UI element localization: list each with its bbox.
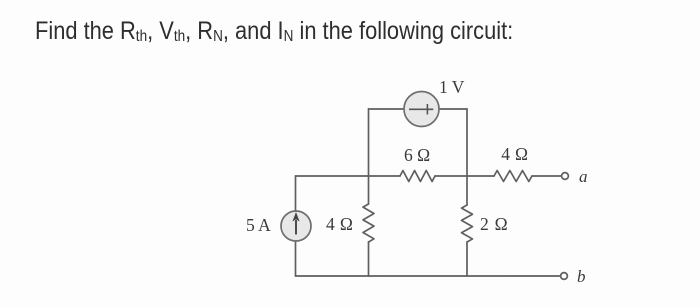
wire top rail left segment xyxy=(296,175,401,177)
svg-text:6 Ω: 6 Ω xyxy=(404,145,430,165)
terminal a circle xyxy=(562,173,569,180)
svg-text:4 Ω: 4 Ω xyxy=(501,144,528,164)
terminal b circle xyxy=(561,273,568,280)
svg-text:2 Ω: 2 Ω xyxy=(480,214,508,234)
svg-text:a: a xyxy=(579,167,588,186)
wire voltage loop right xyxy=(439,108,467,110)
svg-text:5 A: 5 A xyxy=(246,215,271,235)
wire to terminal a xyxy=(532,175,562,177)
resistor 6ohm zigzag xyxy=(400,171,435,182)
wire right branch upper xyxy=(466,109,468,205)
svg-text:1 V: 1 V xyxy=(439,77,465,97)
wire top rail middle segment xyxy=(435,175,494,177)
svg-text:b: b xyxy=(577,267,586,286)
wire voltage loop left xyxy=(369,108,405,110)
wire bottom rail xyxy=(296,275,562,277)
current source I1 circle with up arrow xyxy=(281,211,311,241)
voltage source V1 circle xyxy=(404,92,439,127)
wire left branch vertical xyxy=(295,176,297,276)
resistor 4ohm vertical zigzag xyxy=(363,204,374,242)
wire right branch lower xyxy=(466,242,468,276)
resistor 4ohm horizontal zigzag xyxy=(494,171,532,182)
wire middle branch lower xyxy=(368,242,370,276)
title xyxy=(35,17,513,46)
wire middle branch upper xyxy=(368,109,370,204)
resistor 2ohm vertical zigzag xyxy=(462,205,473,242)
svg-text:4 Ω: 4 Ω xyxy=(326,214,353,234)
